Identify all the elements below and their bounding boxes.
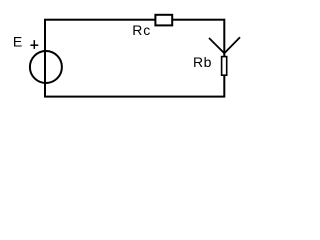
svg-text:E: E [13,33,22,49]
svg-text:Rb: Rb [193,54,212,70]
svg-text:Rc: Rc [132,22,151,38]
